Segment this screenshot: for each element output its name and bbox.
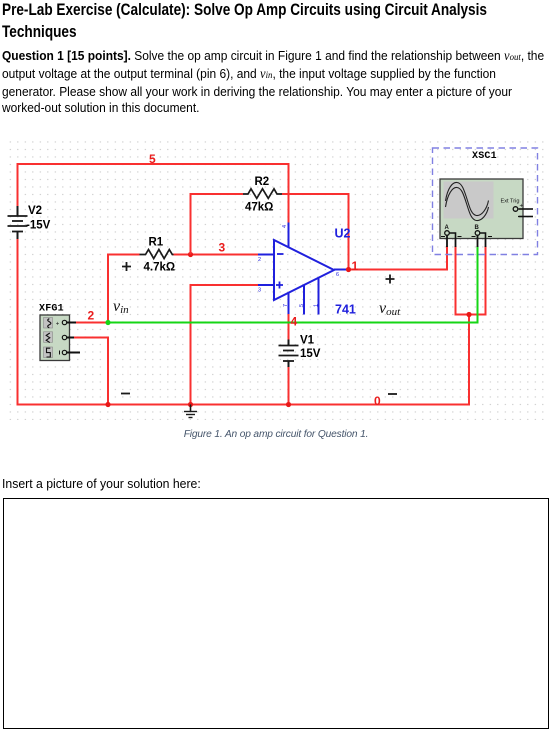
junction dot node 1 [346, 267, 351, 272]
wire node 1 output to scope channel A [349, 246, 448, 270]
svg-text:V1: V1 [300, 335, 315, 347]
wire node 5 top: V2 top to op-amp V- pin [18, 164, 289, 223]
wire v_in green net: node 2 to scope channel B [108, 246, 478, 323]
svg-text:0: 0 [374, 394, 381, 408]
svg-text:5: 5 [149, 152, 156, 166]
svg-text:Ext Trig: Ext Trig [501, 199, 520, 205]
junction dot V1 on ground rail [286, 402, 291, 407]
svg-text:4: 4 [291, 315, 298, 329]
node 0 label [374, 394, 381, 408]
junction dot XFG1 common on ground rail [105, 402, 110, 407]
wire scope A minus to ground rail [456, 246, 486, 315]
oscilloscope XSC1 icon [440, 179, 533, 247]
svg-text:15V: 15V [300, 348, 321, 360]
junction dot node 3 [188, 252, 193, 257]
V2 value label [26, 220, 51, 232]
svg-text:2: 2 [258, 257, 261, 263]
v_in label [113, 298, 129, 316]
wire V2 bottom to ground rail [18, 239, 470, 405]
svg-text:47kΩ: 47kΩ [245, 202, 273, 214]
svg-text:1: 1 [314, 304, 320, 307]
svg-text:4: 4 [282, 225, 288, 228]
svg-text:XSC1: XSC1 [472, 151, 497, 162]
svg-text:U2: U2 [335, 227, 351, 241]
junction node 2 (green dot) [105, 320, 110, 325]
XFG1 label [39, 304, 64, 315]
wire V1 bottom to ground rail [288, 367, 290, 405]
svg-text:-15V: -15V [26, 220, 51, 232]
svg-text:R2: R2 [255, 176, 270, 188]
R1 value label [144, 262, 176, 274]
svg-text:3: 3 [258, 288, 261, 294]
resistor R1 [140, 250, 179, 259]
wire node 2 up to R1 [108, 255, 140, 323]
wire node 3 up to R2 [191, 194, 244, 255]
junction dot scope ground [466, 312, 471, 317]
resistor R2 [243, 189, 282, 199]
node 3 label [219, 241, 226, 255]
wire R1 to node 3 and op-amp inverting input [174, 254, 259, 256]
R2 label [255, 176, 270, 188]
U2 label [335, 227, 351, 241]
v_out label [379, 300, 401, 318]
svg-text:V2: V2 [28, 205, 42, 217]
svg-text:1: 1 [352, 259, 359, 273]
plus annotation near v_in [122, 262, 131, 271]
V1 label [300, 335, 315, 347]
plus annotation near v_out [386, 275, 395, 284]
V2 label [28, 205, 42, 217]
XSC1 label [472, 151, 497, 162]
minus annotation near node 0 [388, 393, 397, 395]
node 4 label [291, 315, 298, 329]
node 1 label [352, 259, 359, 273]
wire XFG1 plus pin to node 2 [76, 322, 108, 324]
svg-text:4.7kΩ: 4.7kΩ [144, 262, 176, 274]
svg-text:6: 6 [336, 272, 339, 278]
battery V2 [8, 206, 28, 240]
svg-text:5: 5 [299, 304, 305, 307]
oscilloscope XSC1 selection box [433, 148, 538, 255]
svg-text:7: 7 [283, 304, 289, 307]
wire op-amp + input to ground [191, 285, 259, 405]
grid background [8, 140, 546, 420]
wire XFG1 common pin to ground rail [74, 338, 108, 405]
R2 value label [245, 202, 273, 214]
svg-text:XFG1: XFG1 [39, 304, 64, 315]
ground [184, 405, 197, 418]
node 2 label [88, 309, 95, 323]
svg-text:3: 3 [219, 241, 226, 255]
function generator XFG1 [40, 315, 80, 361]
junction dot at ground [188, 402, 193, 407]
node 5 label [149, 152, 156, 166]
svg-text:741: 741 [335, 303, 356, 317]
741 label [335, 303, 356, 317]
op-amp U2 [258, 223, 348, 316]
minus annotation bottom-left [121, 393, 130, 395]
battery V1 [279, 340, 299, 369]
R1 label [149, 237, 164, 249]
svg-text:+: + [56, 322, 60, 328]
svg-text:R1: R1 [149, 237, 164, 249]
wire op-amp pin7 down to V1 [288, 314, 290, 341]
wire R2 to node 1 [282, 194, 349, 270]
V1 value label [300, 348, 321, 360]
svg-text:2: 2 [88, 309, 95, 323]
